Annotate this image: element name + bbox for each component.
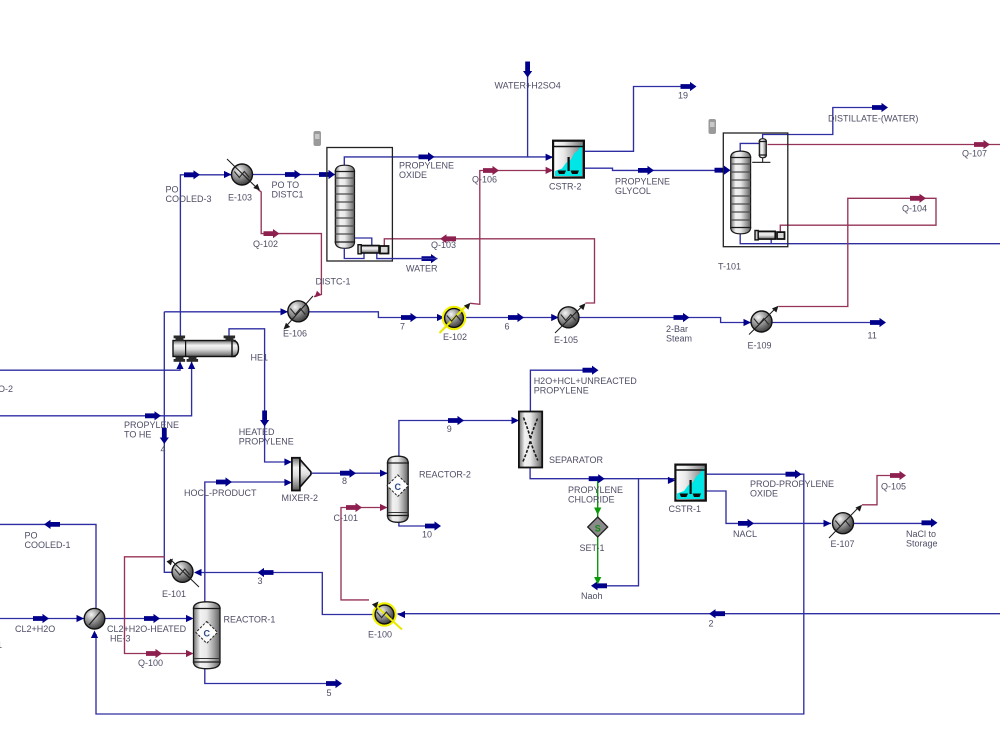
- node arrow PO COOLED-1: [44, 520, 60, 529]
- svg-text:CHLORIDE: CHLORIDE: [568, 495, 615, 505]
- svg-text:PROD-PROPYLENE: PROD-PROPYLENE: [750, 479, 834, 489]
- wire Q-105: [862, 476, 899, 505]
- heater E-101: [166, 556, 199, 587]
- node arrow NACL: [738, 519, 754, 528]
- svg-text:CSTR-1: CSTR-1: [669, 504, 702, 514]
- wire C-101 E-100 to REACTOR-2: [341, 508, 382, 600]
- wire PO COOLED-1: [0, 524, 96, 608]
- node arrow Q-104: [910, 194, 926, 203]
- node arrow Q-105: [890, 471, 906, 480]
- heater E-103: [227, 159, 262, 193]
- wire DISTC-1 internal piping: [355, 238, 372, 246]
- svg-text:C: C: [395, 482, 402, 492]
- column T-101 tower: [731, 151, 751, 234]
- wire Q-100 E-101 to REACTOR-1: [125, 557, 190, 654]
- separator SEPARATOR: [519, 412, 542, 468]
- wire stream 8: [310, 472, 387, 474]
- svg-text:E-107: E-107: [831, 539, 855, 549]
- svg-text:PO: PO: [166, 185, 179, 195]
- wire PROD-PROPYLENE OXIDE and recycle down: [96, 474, 804, 714]
- svg-text:2: 2: [709, 619, 714, 629]
- node arrow PROD-PROPYLENE OXIDE: [786, 470, 802, 479]
- svg-text:11: 11: [868, 331, 877, 341]
- node arrow 19: [681, 82, 697, 91]
- artifact icon above DISTC-1: [314, 131, 322, 146]
- svg-text:TO HE: TO HE: [124, 430, 151, 440]
- svg-text:Q-106: Q-106: [472, 175, 497, 185]
- svg-text:4: 4: [161, 445, 166, 455]
- svg-text:SEPARATOR: SEPARATOR: [549, 455, 604, 465]
- node arrow into E-105: [551, 314, 559, 321]
- svg-text:C: C: [203, 629, 210, 639]
- svg-text:E-103: E-103: [228, 193, 252, 203]
- node arrow into E-102: [437, 314, 445, 321]
- svg-text:E-101: E-101: [162, 589, 186, 599]
- svg-text:PO: PO: [25, 531, 38, 541]
- node arrow WATER+H2SO4: [523, 62, 532, 78]
- wire stream 5: [205, 669, 338, 684]
- svg-text:C-101: C-101: [334, 513, 359, 523]
- wire T-101 bottoms to right edge: [740, 234, 1000, 244]
- node arrow PROPYLENE OXIDE: [419, 152, 435, 161]
- heater E-100 (yellow highlighted): [372, 599, 402, 629]
- wire stream 2: [398, 613, 1000, 615]
- wire PROPYLENE TO HE: [0, 362, 192, 416]
- artifact icon above T-101: [709, 119, 717, 134]
- wire HEATED PROPYLENE: [229, 329, 288, 462]
- reactor REACTOR-1: [194, 602, 221, 669]
- heater E-105: [555, 301, 588, 333]
- wire E-100 to stream 3 to E-101: [198, 573, 373, 615]
- node arrow H2O+HCL: [583, 366, 599, 375]
- node arrow Q-107: [974, 140, 990, 149]
- svg-text:3: 3: [258, 576, 263, 586]
- wire middle exchanger train E-106 to 11: [164, 311, 288, 313]
- svg-text:WATER+H2SO4: WATER+H2SO4: [495, 81, 561, 91]
- wire T-101 reboiler drop: [770, 239, 772, 244]
- svg-text:Naoh: Naoh: [581, 591, 603, 601]
- svg-text:E-109: E-109: [748, 341, 772, 351]
- svg-text:CSTR-2: CSTR-2: [549, 182, 582, 192]
- svg-text:NACL: NACL: [733, 529, 757, 539]
- svg-text:PROPYLENE: PROPYLENE: [399, 161, 454, 171]
- heater E-106: [281, 291, 321, 332]
- svg-text:COOLED-1: COOLED-1: [25, 540, 71, 550]
- wire Q-107: [768, 144, 1000, 146]
- svg-text:REACTOR-1: REACTOR-1: [224, 615, 276, 625]
- wire Q-104 E-109 to T-101 reboiler: [779, 198, 937, 306]
- svg-text:NaCl to: NaCl to: [906, 529, 936, 539]
- svg-text:SET-1: SET-1: [580, 543, 605, 553]
- svg-text:CL2+H2O: CL2+H2O: [15, 624, 55, 634]
- svg-text:5: 5: [327, 688, 332, 698]
- svg-text:DISTC1: DISTC1: [272, 190, 304, 200]
- node arrow into E-106: [281, 308, 289, 315]
- svg-text:Q-105: Q-105: [881, 482, 906, 492]
- mixer MIXER-2: [292, 458, 311, 491]
- wire HOCL-PRODUCT: [205, 482, 288, 602]
- wire H2O+HCL+UNREACTED PROPYLENE: [530, 370, 594, 411]
- svg-text:REACTOR-2: REACTOR-2: [419, 470, 471, 480]
- node arrow DISTILLATE: [872, 103, 888, 112]
- node arrow 8: [340, 469, 356, 478]
- svg-text:PROPYLENE: PROPYLENE: [615, 177, 670, 187]
- svg-text:Q-104: Q-104: [902, 204, 927, 214]
- svg-text:S: S: [595, 524, 601, 534]
- wire Q-106 E-102 to CSTR-2: [470, 171, 546, 305]
- condenser T-101: [752, 139, 770, 163]
- node arrow 2: [709, 609, 725, 618]
- node arrow 6: [508, 313, 524, 322]
- wire NACL: [706, 491, 831, 523]
- node arrow PROPYLENE TO HE: [145, 411, 161, 420]
- node arrow PROPYLENE CHLORIDE: [589, 474, 605, 483]
- node arrow SET-1 upper: [594, 508, 601, 516]
- node arrow PO-COOLED-3: [184, 170, 200, 179]
- svg-text:Steam: Steam: [666, 334, 692, 344]
- svg-text:COOLED-3: COOLED-3: [166, 194, 212, 204]
- node arrow PROPYLENE GLYCOL: [638, 166, 654, 175]
- svg-text:PROPYLENE: PROPYLENE: [124, 420, 179, 430]
- wire NaOH branch: [595, 479, 639, 586]
- node arrow into MIXER-2 top: [284, 458, 292, 465]
- mixer HE-3: [84, 608, 105, 629]
- node arrow HE1 inlet right: [188, 362, 195, 370]
- svg-text:HE-3: HE-3: [110, 634, 131, 644]
- wire CSTR-2 top outlet to 19: [584, 87, 692, 152]
- node arrow 5: [326, 679, 342, 688]
- svg-text:9: 9: [447, 424, 452, 434]
- svg-text:PROPYLENE: PROPYLENE: [568, 485, 623, 495]
- heater E-109: [749, 304, 781, 335]
- node arrow into E-109: [744, 319, 752, 326]
- reboiler T-101: [755, 231, 785, 240]
- wire PO TO DISTC1: [253, 174, 336, 176]
- svg-text:O-2: O-2: [0, 384, 13, 394]
- node arrow NaCl to Storage: [922, 518, 938, 527]
- node arrow HEATED PROPYLENE down: [260, 411, 269, 427]
- svg-text:2-Bar: 2-Bar: [666, 324, 688, 334]
- node arrow HOCL-PRODUCT: [216, 477, 232, 486]
- set block SET-1: [588, 517, 608, 537]
- node arrow NaOH left: [591, 581, 607, 590]
- node arrow Q-100: [146, 649, 162, 658]
- svg-text:HE1: HE1: [251, 353, 269, 363]
- node arrow CL2+H2O: [33, 614, 49, 623]
- node arrow Q-102: [264, 229, 280, 238]
- reactor REACTOR-2: [387, 456, 408, 522]
- node arrow Q-103 left: [440, 234, 456, 243]
- wire CL2+H2O: [0, 618, 84, 620]
- node arrow 9: [448, 416, 464, 425]
- wire DISTILLATE-(WATER): [763, 108, 884, 139]
- node arrow CL2+H2O-HEATED: [144, 614, 160, 623]
- wire stream 10: [399, 522, 430, 526]
- svg-text:19: 19: [678, 91, 688, 101]
- wire stream 4 vertical: [164, 312, 172, 573]
- svg-text:DISTC-1: DISTC-1: [316, 277, 351, 287]
- svg-text:E-105: E-105: [554, 335, 578, 345]
- svg-text:OXIDE: OXIDE: [399, 170, 427, 180]
- wire SET-1 green link: [597, 479, 599, 580]
- svg-text:8: 8: [342, 476, 347, 486]
- svg-text:HEATED: HEATED: [239, 427, 275, 437]
- svg-text:7: 7: [400, 322, 405, 332]
- wire NaCl to Storage: [853, 522, 934, 524]
- svg-text:Storage: Storage: [906, 539, 938, 549]
- wire Q-102 E-103 to E-106: [258, 190, 321, 297]
- reboiler DISTC-1: [358, 245, 389, 254]
- cstr CSTR-2: [553, 141, 584, 178]
- svg-text:Q-103: Q-103: [431, 240, 456, 250]
- wire stream 9: [399, 421, 517, 457]
- heat exchanger HE1 shell: [173, 336, 239, 362]
- svg-text:E-106: E-106: [283, 329, 307, 339]
- node arrow 2-Bar Steam: [674, 313, 690, 322]
- wire Q-103 E-105 to DISTC-1 reboiler: [384, 239, 594, 303]
- svg-text:DISTILLATE-(WATER): DISTILLATE-(WATER): [828, 114, 918, 124]
- node arrow HE1 inlet left: [176, 362, 183, 370]
- wire DISTC1 top to PROPYLENE OXIDE: [344, 157, 553, 165]
- node arrow PO TO DISTC1: [285, 170, 301, 179]
- svg-text:T-101: T-101: [718, 262, 741, 272]
- svg-text:E-102: E-102: [443, 332, 467, 342]
- wire PO-COOLED-3: [180, 175, 231, 337]
- svg-text:WATER: WATER: [406, 264, 438, 274]
- svg-text:CL2+H2O-HEATED: CL2+H2O-HEATED: [107, 624, 187, 634]
- svg-text:Q-102: Q-102: [253, 239, 278, 249]
- column block DISTC-1 box: [327, 148, 393, 262]
- wire PROPYLENE GLYCOL: [584, 168, 726, 170]
- svg-text:Q-100: Q-100: [138, 658, 163, 668]
- wire CL2+H2O-HEATED: [105, 618, 189, 620]
- svg-text:PO TO: PO TO: [272, 180, 300, 190]
- node arrow into HE-3 bottom: [91, 631, 98, 639]
- node arrow Q-106: [483, 166, 499, 175]
- svg-text:H2O+HCL+UNREACTED: H2O+HCL+UNREACTED: [534, 376, 638, 386]
- node arrow into MIXER-2 bottom: [284, 479, 292, 486]
- svg-text:Q-107: Q-107: [962, 149, 987, 159]
- node arrow WATER: [422, 254, 438, 263]
- svg-text:10: 10: [422, 530, 432, 540]
- node arrow SET-1 lower: [594, 577, 601, 585]
- node arrow C-101: [346, 503, 362, 512]
- wire WATER+H2SO4 feed: [527, 70, 529, 157]
- column DISTC-1 tower: [335, 165, 354, 248]
- node arrow 10: [425, 521, 441, 530]
- cstr CSTR-1: [675, 465, 705, 501]
- svg-text:1: 1: [0, 640, 2, 650]
- svg-text:OXIDE: OXIDE: [750, 489, 778, 499]
- column block T-101 box: [723, 133, 788, 247]
- node arrow 7: [401, 313, 417, 322]
- svg-text:PROPYLENE: PROPYLENE: [534, 386, 589, 396]
- node arrow 11: [870, 318, 886, 327]
- node arrow stream 4 down: [160, 428, 169, 444]
- wire T-101 top to condenser: [740, 143, 759, 151]
- wire hot PO into HE1 (D-2): [0, 362, 180, 371]
- heater E-107: [829, 503, 864, 538]
- wire PROPYLENE CHLORIDE: [530, 468, 675, 479]
- svg-text:PROPYLENE: PROPYLENE: [239, 437, 294, 447]
- svg-text:E-100: E-100: [368, 630, 392, 640]
- svg-text:MIXER-2: MIXER-2: [282, 493, 319, 503]
- heater E-102 (yellow highlighted): [440, 301, 473, 333]
- node arrow 3: [258, 568, 274, 577]
- svg-text:HOCL-PRODUCT: HOCL-PRODUCT: [184, 488, 257, 498]
- svg-text:6: 6: [505, 322, 510, 332]
- svg-text:GLYCOL: GLYCOL: [615, 186, 651, 196]
